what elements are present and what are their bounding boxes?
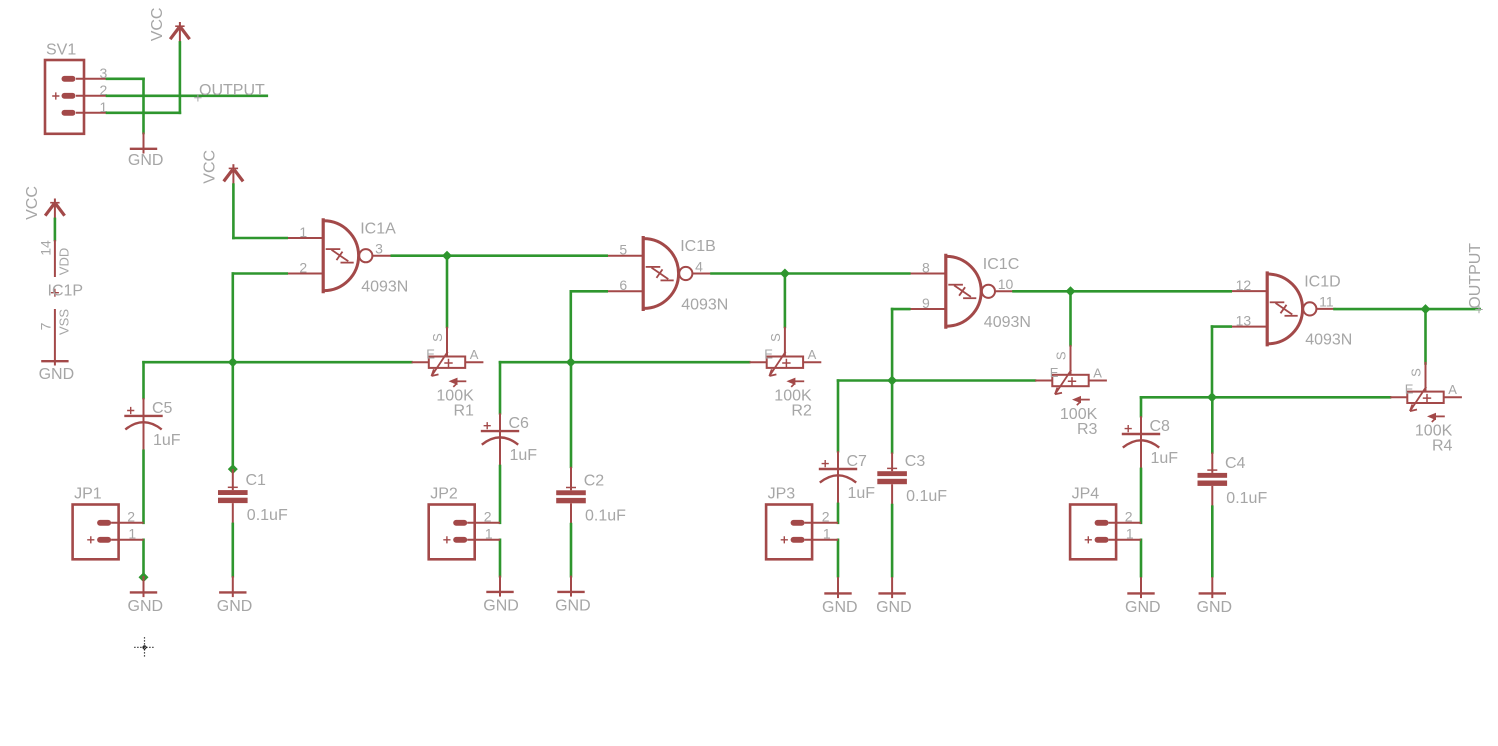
wire C7 to JP3 pin2 bbox=[837, 504, 840, 523]
junction node D bbox=[1421, 304, 1431, 314]
wire C6 to JP2 pin2 bbox=[499, 466, 502, 523]
trimmer potentiometer R1 (100K) bbox=[412, 327, 484, 387]
wire rail stage3 bbox=[838, 379, 1035, 382]
wire rail4 to C8 bbox=[1140, 397, 1143, 416]
ground bbox=[1127, 577, 1154, 598]
junction node A bbox=[442, 251, 452, 261]
wire VCC to VDD pin bbox=[54, 219, 57, 240]
svg-text:4093N: 4093N bbox=[361, 279, 408, 296]
wire C1 to GND bbox=[232, 524, 235, 576]
junction at C1 bbox=[228, 464, 238, 474]
trimmer potentiometer R4 (100K) bbox=[1390, 362, 1462, 422]
capacitor C4 (0.1uF) bbox=[1198, 453, 1228, 507]
wire C5 to JP1 pin2 bbox=[142, 451, 145, 523]
wire C2 to GND bbox=[570, 524, 573, 576]
svg-text:S: S bbox=[1409, 368, 1424, 377]
capacitor C2 (0.1uF) bbox=[556, 467, 586, 524]
trimmer potentiometer R2 (100K) bbox=[750, 327, 822, 387]
svg-text:C4: C4 bbox=[1225, 455, 1246, 472]
wire rail1 to C5 bbox=[142, 362, 145, 398]
wire JP4 pin1 to GND bbox=[1140, 540, 1143, 576]
ground bbox=[878, 577, 905, 598]
wire IC1D pin13 to rail4 bbox=[1212, 325, 1231, 328]
svg-text:0.1uF: 0.1uF bbox=[247, 507, 288, 524]
wire junction to R2 S bbox=[784, 274, 787, 327]
svg-text:1: 1 bbox=[485, 526, 493, 542]
op-amp-style NAND gate IC1A (4093 Schmitt) bbox=[287, 220, 393, 292]
svg-text:OUTPUT: OUTPUT bbox=[1467, 243, 1484, 309]
svg-text:C3: C3 bbox=[905, 453, 926, 470]
svg-text:1uF: 1uF bbox=[153, 432, 181, 449]
wire rail2 to C2 bbox=[570, 362, 573, 467]
svg-text:1uF: 1uF bbox=[1151, 450, 1179, 467]
capacitor C1 (0.1uF) bbox=[218, 469, 248, 524]
junction at JP1 GND bbox=[139, 572, 149, 582]
svg-text:0.1uF: 0.1uF bbox=[1226, 490, 1267, 507]
svg-text:GND: GND bbox=[128, 598, 164, 615]
svg-text:C7: C7 bbox=[847, 453, 868, 470]
svg-text:0.1uF: 0.1uF bbox=[906, 488, 947, 505]
junction node B bbox=[780, 269, 790, 279]
op-amp-style NAND gate IC1D (4093 Schmitt) bbox=[1231, 273, 1337, 345]
svg-text:1: 1 bbox=[128, 526, 136, 542]
svg-text:4093N: 4093N bbox=[681, 296, 728, 313]
svg-text:JP3: JP3 bbox=[768, 486, 796, 503]
svg-text:IC1A: IC1A bbox=[360, 220, 396, 237]
svg-text:SV1: SV1 bbox=[46, 42, 76, 59]
capacitor C5 (1uF polarized) bbox=[124, 398, 162, 451]
svg-text:E: E bbox=[1050, 365, 1059, 380]
svg-text:C5: C5 bbox=[152, 400, 173, 417]
svg-text:VSS: VSS bbox=[57, 309, 72, 335]
svg-text:4093N: 4093N bbox=[984, 314, 1031, 331]
jumper JP2 bbox=[429, 505, 500, 560]
svg-text:1: 1 bbox=[1126, 526, 1134, 542]
svg-text:1: 1 bbox=[299, 224, 307, 240]
ground bbox=[1199, 577, 1226, 598]
wire rail1 to C1 bbox=[232, 362, 235, 469]
wire C4 to GND bbox=[1211, 507, 1214, 577]
svg-text:5: 5 bbox=[619, 242, 627, 258]
wire rail stage1 bbox=[144, 361, 412, 364]
wire junction to R4 S bbox=[1424, 309, 1427, 363]
wire SV1 pin1 to VCC bbox=[179, 42, 182, 112]
svg-text:A: A bbox=[808, 347, 817, 362]
svg-text:3: 3 bbox=[375, 241, 383, 257]
svg-text:E: E bbox=[1405, 382, 1414, 397]
svg-text:0.1uF: 0.1uF bbox=[585, 507, 626, 524]
wire IC1C pin10 to IC1D pin12 bbox=[1014, 290, 1231, 293]
wire rail3 to C7 bbox=[837, 381, 840, 452]
svg-text:GND: GND bbox=[39, 366, 75, 383]
svg-text:GND: GND bbox=[217, 598, 253, 615]
connector SV1 bbox=[45, 60, 107, 134]
svg-text:11: 11 bbox=[1319, 294, 1334, 310]
junction rail3 bbox=[887, 376, 897, 386]
jumper JP4 bbox=[1070, 505, 1141, 560]
junction rail4 bbox=[1207, 392, 1217, 402]
jumper JP1 bbox=[73, 505, 144, 560]
svg-text:VCC: VCC bbox=[149, 8, 166, 42]
wire junction to R1 S bbox=[446, 256, 449, 327]
svg-text:S: S bbox=[768, 333, 783, 342]
svg-text:IC1D: IC1D bbox=[1304, 274, 1340, 291]
svg-text:A: A bbox=[1448, 382, 1457, 397]
wire C8 to JP4 pin2 bbox=[1140, 469, 1143, 523]
junction rail1 bbox=[228, 357, 238, 367]
wire JP1 pin1 to GND bbox=[142, 540, 145, 577]
wire JP2 pin1 to GND bbox=[499, 540, 502, 576]
jumper JP3 bbox=[766, 505, 838, 560]
svg-text:C2: C2 bbox=[584, 472, 605, 489]
net OUTPUT wire (top) bbox=[107, 95, 267, 98]
svg-text:GND: GND bbox=[876, 599, 912, 616]
VCC symbol (IC1P) bbox=[54, 199, 56, 219]
svg-text:2: 2 bbox=[299, 259, 307, 275]
svg-text:GND: GND bbox=[1125, 599, 1161, 616]
svg-text:14: 14 bbox=[37, 240, 53, 256]
svg-text:GND: GND bbox=[822, 599, 858, 616]
svg-text:10: 10 bbox=[998, 276, 1014, 292]
svg-text:R2: R2 bbox=[791, 403, 812, 420]
wire IC1A pin3 to IC1B pin5 bbox=[392, 254, 607, 257]
ground bbox=[486, 576, 513, 597]
capacitor C8 (1uF polarized) bbox=[1122, 416, 1160, 469]
svg-text:E: E bbox=[426, 347, 435, 362]
ground bbox=[557, 576, 584, 597]
svg-text:GND: GND bbox=[555, 597, 591, 614]
svg-text:IC1B: IC1B bbox=[680, 238, 716, 255]
ground bbox=[824, 577, 851, 598]
svg-text:E: E bbox=[764, 347, 773, 362]
wire rail3 to C3 bbox=[891, 381, 894, 453]
wire rail stage4 bbox=[1141, 396, 1390, 399]
svg-text:VCC: VCC bbox=[202, 150, 219, 184]
svg-text:12: 12 bbox=[1236, 277, 1252, 293]
wire IC1B pin4 to IC1C pin8 bbox=[712, 272, 910, 275]
sheet origin crosshair bbox=[134, 637, 154, 657]
svg-text:R4: R4 bbox=[1432, 438, 1453, 455]
svg-text:S: S bbox=[1054, 351, 1069, 360]
svg-text:OUTPUT: OUTPUT bbox=[199, 82, 265, 99]
svg-text:A: A bbox=[470, 347, 479, 362]
svg-text:S: S bbox=[430, 333, 445, 342]
svg-text:6: 6 bbox=[619, 277, 627, 293]
svg-text:13: 13 bbox=[1236, 312, 1252, 328]
svg-text:IC1P: IC1P bbox=[48, 282, 84, 299]
svg-text:R3: R3 bbox=[1077, 421, 1098, 438]
svg-text:4: 4 bbox=[695, 258, 703, 274]
svg-text:C1: C1 bbox=[246, 472, 267, 489]
svg-text:2: 2 bbox=[484, 508, 492, 524]
ground bbox=[130, 133, 157, 154]
wire IC1B pin6 to rail2 bbox=[571, 290, 607, 293]
VCC symbol above IC1A bbox=[232, 164, 234, 184]
svg-text:JP1: JP1 bbox=[74, 486, 102, 503]
ground bbox=[219, 576, 246, 597]
svg-text:JP4: JP4 bbox=[1072, 486, 1100, 503]
op-amp-style NAND gate IC1C (4093 Schmitt) bbox=[909, 255, 1015, 327]
wire junction to R3 S bbox=[1069, 291, 1072, 345]
junction node C bbox=[1066, 286, 1076, 296]
svg-text:GND: GND bbox=[1197, 599, 1233, 616]
power pins IC1P bbox=[51, 240, 59, 366]
wire VCC to IC1A pin 1 bbox=[232, 185, 235, 238]
ground bbox=[130, 576, 157, 597]
svg-text:4093N: 4093N bbox=[1305, 332, 1352, 349]
wire C3 to GND bbox=[891, 505, 894, 576]
svg-text:VDD: VDD bbox=[57, 248, 72, 275]
svg-text:R1: R1 bbox=[454, 403, 475, 420]
capacitor C6 (1uF polarized) bbox=[481, 413, 519, 466]
svg-text:1: 1 bbox=[823, 526, 831, 542]
VCC symbol above SV1 bbox=[179, 22, 181, 42]
svg-text:IC1C: IC1C bbox=[983, 256, 1019, 273]
svg-text:2: 2 bbox=[127, 508, 135, 524]
wire rail4 to C4 bbox=[1211, 397, 1214, 452]
wire IC1A pin2 to rail1 bbox=[233, 272, 287, 275]
trimmer potentiometer R3 (100K) bbox=[1035, 345, 1107, 405]
wire rail2 to C6 bbox=[499, 362, 502, 413]
svg-text:9: 9 bbox=[922, 295, 930, 311]
svg-text:GND: GND bbox=[128, 152, 164, 169]
svg-text:VCC: VCC bbox=[24, 186, 41, 220]
svg-text:GND: GND bbox=[483, 597, 519, 614]
ground (IC1P) bbox=[41, 360, 68, 362]
wire IC1C pin9 to rail3 bbox=[892, 308, 909, 311]
net OUTPUT wire (right) bbox=[1335, 308, 1480, 311]
junction rail2 bbox=[566, 357, 576, 367]
svg-text:8: 8 bbox=[922, 259, 930, 275]
capacitor C3 (0.1uF) bbox=[877, 453, 907, 506]
svg-text:2: 2 bbox=[1125, 508, 1133, 524]
svg-text:JP2: JP2 bbox=[430, 486, 458, 503]
svg-text:A: A bbox=[1093, 365, 1102, 380]
op-amp-style NAND gate IC1B (4093 Schmitt) bbox=[607, 238, 713, 310]
svg-text:C6: C6 bbox=[509, 415, 530, 432]
svg-text:1uF: 1uF bbox=[510, 447, 538, 464]
svg-text:C8: C8 bbox=[1150, 418, 1171, 435]
svg-text:1uF: 1uF bbox=[848, 485, 876, 502]
svg-text:2: 2 bbox=[822, 508, 830, 524]
wire SV1 pin3 to GND bbox=[107, 78, 144, 81]
capacitor C7 (1uF polarized) bbox=[819, 451, 857, 504]
svg-text:7: 7 bbox=[37, 322, 53, 330]
wire JP3 pin1 to GND bbox=[837, 540, 840, 576]
wire rail stage2 bbox=[500, 361, 749, 364]
